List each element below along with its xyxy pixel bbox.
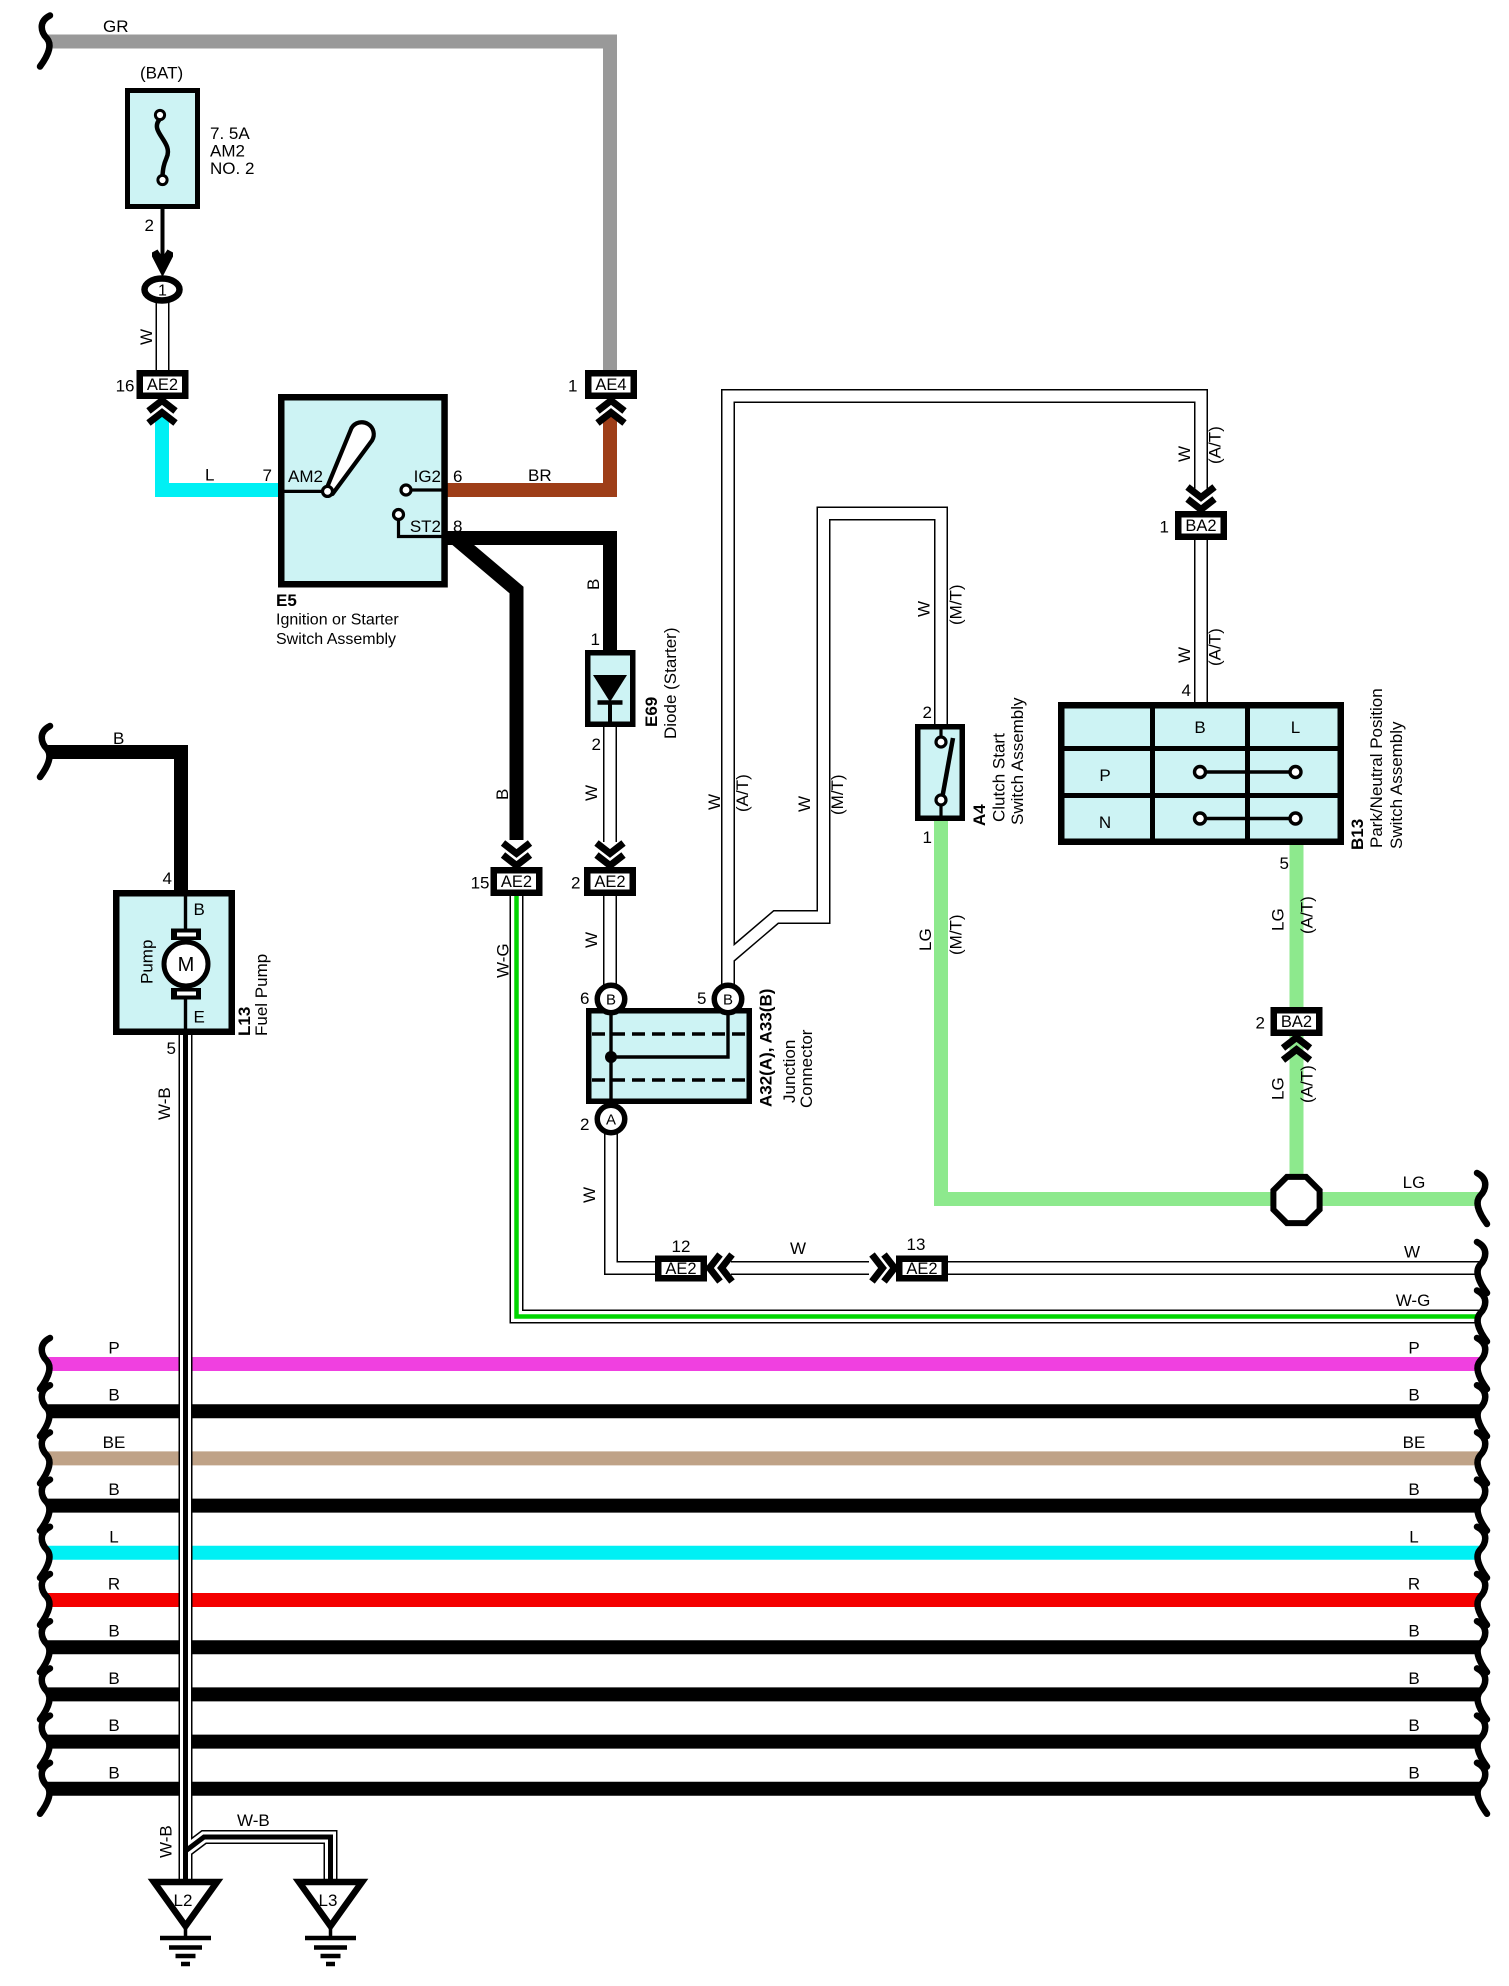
- svg-text:AE2: AE2: [594, 873, 625, 891]
- svg-text:W: W: [1175, 446, 1194, 462]
- connector AE2-13: [896, 1256, 948, 1282]
- svg-text:P: P: [1408, 1339, 1419, 1358]
- svg-text:7: 7: [263, 466, 272, 485]
- diode E69 box: [588, 653, 633, 725]
- svg-text:Diode (Starter): Diode (Starter): [661, 628, 680, 739]
- svg-text:5: 5: [1280, 854, 1289, 873]
- svg-text:B: B: [493, 789, 512, 800]
- svg-text:E5: E5: [276, 591, 297, 610]
- svg-text:Ignition or Starter: Ignition or Starter: [276, 612, 399, 629]
- break left of B: [40, 1480, 50, 1531]
- E5 ST2 contact: [394, 510, 404, 520]
- svg-text:B: B: [108, 1716, 119, 1735]
- svg-text:L3: L3: [319, 1891, 338, 1910]
- break left of B: [40, 1621, 50, 1672]
- break left of B: [40, 1716, 50, 1767]
- break right of B: [1477, 1385, 1487, 1436]
- break W-G right: [1477, 1291, 1487, 1342]
- svg-text:A: A: [606, 1112, 616, 1129]
- svg-text:LG: LG: [916, 928, 935, 951]
- break left of B: [40, 1668, 50, 1719]
- svg-text:W-B: W-B: [157, 1825, 176, 1858]
- junction splice dot: [605, 1051, 617, 1063]
- wire LG from A4 pin 1 through splice to right break: [941, 818, 1480, 1199]
- connector AE4: [585, 370, 637, 399]
- chevrons AE2-2: [597, 843, 624, 866]
- B13 N row contact: [1195, 813, 1302, 824]
- splice octagon node: [1273, 1177, 1319, 1223]
- E5 AM2 pivot contact: [323, 486, 333, 496]
- svg-text:N: N: [1099, 813, 1111, 832]
- svg-text:Clutch Start: Clutch Start: [990, 733, 1009, 822]
- svg-text:2: 2: [1256, 1014, 1265, 1033]
- svg-text:B: B: [1194, 718, 1205, 737]
- svg-text:Park/Neutral Position: Park/Neutral Position: [1367, 688, 1386, 848]
- svg-text:Switch Assembly: Switch Assembly: [276, 631, 396, 648]
- ground L2 symbol: [160, 1926, 211, 1964]
- svg-text:L: L: [109, 1527, 118, 1546]
- svg-text:L: L: [205, 466, 214, 485]
- svg-text:IG2: IG2: [414, 467, 441, 486]
- svg-text:Switch Assembly: Switch Assembly: [1008, 697, 1027, 825]
- ground L2 triangle: [154, 1882, 217, 1926]
- bus wire BE at y=1458.4: [48, 1451, 1480, 1465]
- svg-text:12: 12: [672, 1237, 691, 1256]
- E5 switch lever: [327, 422, 374, 494]
- svg-text:M: M: [178, 954, 195, 976]
- svg-text:E69: E69: [642, 697, 661, 727]
- connector AE2-15: [491, 867, 543, 896]
- black stripe of W-B wire: [183, 1035, 188, 1884]
- svg-text:W: W: [137, 329, 156, 345]
- svg-text:BR: BR: [528, 466, 552, 485]
- break W right: [1477, 1242, 1487, 1293]
- svg-text:1: 1: [1160, 518, 1169, 537]
- wire BR from E5 IG2 pin 6 to AE4: [446, 414, 610, 490]
- break right of B: [1477, 1668, 1487, 1719]
- wire B from harness break to fuel pump pin 4: [48, 752, 181, 890]
- svg-text:B: B: [108, 1386, 119, 1405]
- svg-text:W: W: [795, 796, 814, 812]
- svg-text:W: W: [790, 1239, 806, 1258]
- svg-text:(M/T): (M/T): [947, 914, 966, 955]
- svg-text:4: 4: [1182, 681, 1191, 700]
- svg-text:B: B: [108, 1480, 119, 1499]
- break right of B: [1477, 1716, 1487, 1767]
- junction pin 5 B ring: [714, 985, 742, 1013]
- svg-text:W: W: [915, 601, 934, 617]
- svg-text:2: 2: [580, 1115, 589, 1134]
- svg-text:L2: L2: [174, 1891, 193, 1910]
- bus wire B at y=1694.4: [48, 1687, 1480, 1701]
- chevrons BA2-2: [1283, 1038, 1310, 1061]
- svg-text:Switch Assembly: Switch Assembly: [1387, 721, 1406, 849]
- ground L3 symbol: [305, 1926, 356, 1964]
- svg-text:5: 5: [697, 989, 706, 1008]
- svg-text:1: 1: [591, 630, 600, 649]
- svg-text:5: 5: [167, 1039, 176, 1058]
- svg-text:6: 6: [580, 989, 589, 1008]
- wire LG from B13 pin 5 through BA2-2 to splice: [1290, 843, 1304, 1178]
- svg-text:B: B: [1408, 1763, 1419, 1782]
- svg-text:B: B: [1408, 1622, 1419, 1641]
- svg-text:4: 4: [163, 869, 172, 888]
- svg-text:AE2: AE2: [665, 1260, 696, 1278]
- svg-text:AM2: AM2: [210, 142, 245, 161]
- svg-text:R: R: [108, 1575, 120, 1594]
- svg-text:BA2: BA2: [1185, 517, 1216, 535]
- ignition switch E5 box: [281, 397, 444, 584]
- svg-text:B13: B13: [1348, 819, 1367, 850]
- fuel pump L13 box: [116, 893, 232, 1032]
- junction dashed row line 2: [592, 1078, 746, 1082]
- svg-text:BE: BE: [1403, 1433, 1426, 1452]
- connector 1 oval: [145, 279, 180, 301]
- break at GR wire left end: [40, 16, 50, 67]
- break right of BE: [1477, 1432, 1487, 1483]
- svg-text:(M/T): (M/T): [947, 584, 966, 625]
- fuse element symbol: [155, 110, 168, 184]
- svg-text:AE2: AE2: [906, 1260, 937, 1278]
- svg-text:NO. 2: NO. 2: [210, 159, 254, 178]
- break right of R: [1477, 1574, 1487, 1625]
- svg-text:AM2: AM2: [288, 467, 323, 486]
- svg-text:A32(A), A33(B): A32(A), A33(B): [757, 989, 776, 1107]
- connector BA2-2: [1271, 1007, 1323, 1036]
- white wires fill pass: [163, 300, 1481, 1884]
- break at B pump wire left end: [40, 726, 50, 777]
- svg-text:AE4: AE4: [595, 376, 626, 394]
- junction internal wires: [611, 1009, 728, 1103]
- svg-text:(BAT): (BAT): [140, 64, 183, 83]
- pump motor M: [164, 929, 208, 1000]
- svg-text:2: 2: [923, 703, 932, 722]
- svg-text:(A/T): (A/T): [733, 774, 752, 812]
- svg-text:(A/T): (A/T): [1206, 628, 1225, 666]
- break right of P: [1477, 1338, 1487, 1389]
- chevrons AE2-12: [710, 1255, 733, 1282]
- connector AE2-16: [137, 370, 189, 399]
- wire L (cyan) from AE2-16 to E5 AM2 pin 7: [162, 414, 280, 490]
- junction pin 6 B ring: [597, 985, 625, 1013]
- svg-text:1: 1: [158, 283, 167, 300]
- svg-text:(M/T): (M/T): [828, 774, 847, 815]
- E5 AM2 contact line: [282, 490, 323, 493]
- svg-text:B: B: [194, 900, 205, 919]
- wire B from E5 ST2 pin 8 to diode E69: [446, 538, 610, 674]
- connector BA2-1: [1175, 511, 1227, 540]
- break right of B: [1477, 1480, 1487, 1531]
- svg-text:R: R: [1408, 1575, 1420, 1594]
- E5 ST2 contact line: [399, 520, 445, 537]
- svg-text:AE2: AE2: [501, 873, 532, 891]
- svg-text:ST2: ST2: [410, 517, 441, 536]
- svg-text:(A/T): (A/T): [1206, 426, 1225, 464]
- svg-text:(A/T): (A/T): [1298, 1065, 1317, 1103]
- junction pin 2 A ring: [597, 1105, 625, 1133]
- svg-text:E: E: [194, 1008, 205, 1027]
- svg-text:1: 1: [923, 828, 932, 847]
- svg-text:B: B: [1408, 1480, 1419, 1499]
- break left of B: [40, 1763, 50, 1814]
- svg-text:W: W: [582, 785, 601, 801]
- E5 IG2 contact: [401, 485, 411, 495]
- svg-text:W: W: [580, 1187, 599, 1203]
- svg-text:LG: LG: [1403, 1173, 1426, 1192]
- black stripe of W-B branch: [186, 1837, 331, 1884]
- bus wire B at y=1741.6: [48, 1735, 1480, 1749]
- svg-text:B: B: [584, 579, 603, 590]
- svg-text:A4: A4: [970, 804, 989, 826]
- svg-text:W: W: [582, 932, 601, 948]
- svg-text:B: B: [606, 992, 616, 1009]
- svg-text:1: 1: [568, 377, 577, 396]
- svg-text:B: B: [1408, 1386, 1419, 1405]
- svg-text:W-G: W-G: [494, 943, 513, 978]
- svg-text:6: 6: [453, 467, 462, 486]
- bus wire L at y=1552.8: [48, 1546, 1480, 1560]
- svg-text:13: 13: [907, 1235, 926, 1254]
- arrow on wire 2: [152, 250, 173, 278]
- break right of B: [1477, 1621, 1487, 1672]
- svg-text:B: B: [1408, 1669, 1419, 1688]
- break left of R: [40, 1574, 50, 1625]
- E5 IG2 contact line: [411, 488, 444, 491]
- svg-text:GR: GR: [103, 17, 129, 36]
- bus wire B at y=1647.2: [48, 1640, 1480, 1654]
- break LG right: [1477, 1173, 1487, 1224]
- svg-text:AE2: AE2: [147, 376, 178, 394]
- svg-text:W: W: [1175, 647, 1194, 663]
- bus wire B at y=1788.8: [48, 1782, 1480, 1796]
- chevrons BA2-1: [1188, 487, 1215, 510]
- break left of BE: [40, 1432, 50, 1483]
- svg-text:W-B: W-B: [237, 1811, 270, 1830]
- chevrons AE2-13: [872, 1255, 895, 1282]
- svg-text:(A/T): (A/T): [1298, 896, 1317, 934]
- svg-text:2: 2: [592, 735, 601, 754]
- svg-text:P: P: [108, 1339, 119, 1358]
- bus wire R at y=1600.0: [48, 1593, 1480, 1607]
- break left of B: [40, 1385, 50, 1436]
- svg-text:8: 8: [453, 517, 462, 536]
- svg-text:B: B: [108, 1622, 119, 1641]
- wire B branch from ST2 wire to AE2-15: [455, 538, 517, 840]
- svg-text:Pump: Pump: [138, 940, 157, 984]
- chevrons AE2-15: [503, 843, 530, 866]
- bus wire B at y=1505.6: [48, 1499, 1480, 1513]
- chevrons AE2-16: [149, 401, 176, 424]
- wire 2 from fuse to connector 1: [161, 206, 165, 266]
- bus wire P at y=1364.0: [48, 1357, 1480, 1371]
- B13 grid lines: [1061, 705, 1341, 842]
- fuse 7.5A AM2 NO.2 box: [128, 91, 198, 207]
- svg-text:L: L: [1409, 1527, 1418, 1546]
- clutch start switch A4 box: [918, 727, 963, 819]
- svg-text:LG: LG: [1269, 908, 1288, 931]
- svg-text:2: 2: [145, 216, 154, 235]
- svg-text:LG: LG: [1269, 1077, 1288, 1100]
- svg-text:B: B: [108, 1763, 119, 1782]
- svg-text:Connector: Connector: [797, 1029, 816, 1108]
- svg-text:16: 16: [116, 377, 135, 396]
- svg-text:L: L: [1291, 718, 1300, 737]
- park/neutral switch B13 box: [1061, 705, 1341, 842]
- break left of L: [40, 1527, 50, 1578]
- svg-text:B: B: [108, 1669, 119, 1688]
- wire GR from battery harness to AE4: [48, 42, 610, 373]
- ground L3 triangle: [299, 1882, 362, 1926]
- B13 P row contact: [1195, 767, 1302, 778]
- junction connector A32(A),A33(B) box: [589, 1011, 750, 1102]
- svg-text:B: B: [113, 729, 124, 748]
- connector AE2-2: [584, 867, 636, 896]
- svg-text:B: B: [1408, 1716, 1419, 1735]
- svg-text:2: 2: [571, 874, 580, 893]
- break right of L: [1477, 1527, 1487, 1578]
- svg-text:Fuel Pump: Fuel Pump: [252, 954, 271, 1036]
- svg-text:15: 15: [471, 874, 490, 893]
- svg-text:BA2: BA2: [1281, 1013, 1312, 1031]
- svg-text:W-G: W-G: [1396, 1291, 1431, 1310]
- bus wire B at y=1411.2: [48, 1404, 1480, 1418]
- svg-text:7. 5A: 7. 5A: [210, 124, 250, 143]
- connector AE2-12: [655, 1256, 707, 1282]
- diode symbol: [593, 675, 627, 725]
- svg-text:B: B: [723, 992, 733, 1009]
- junction dashed row line 1: [592, 1032, 746, 1036]
- chevrons AE4: [598, 401, 625, 424]
- svg-text:W: W: [705, 794, 724, 810]
- svg-text:BE: BE: [103, 1433, 126, 1452]
- break left of P: [40, 1338, 50, 1389]
- pump internal wires: [184, 891, 187, 1034]
- break right of B: [1477, 1763, 1487, 1814]
- svg-text:P: P: [1099, 766, 1110, 785]
- A4 switch symbol: [936, 726, 953, 819]
- svg-text:W-B: W-B: [155, 1087, 174, 1120]
- white wires outline pass: [163, 300, 1481, 1884]
- svg-text:W: W: [1404, 1243, 1420, 1262]
- green stripe of W-G wire: [517, 896, 1481, 1317]
